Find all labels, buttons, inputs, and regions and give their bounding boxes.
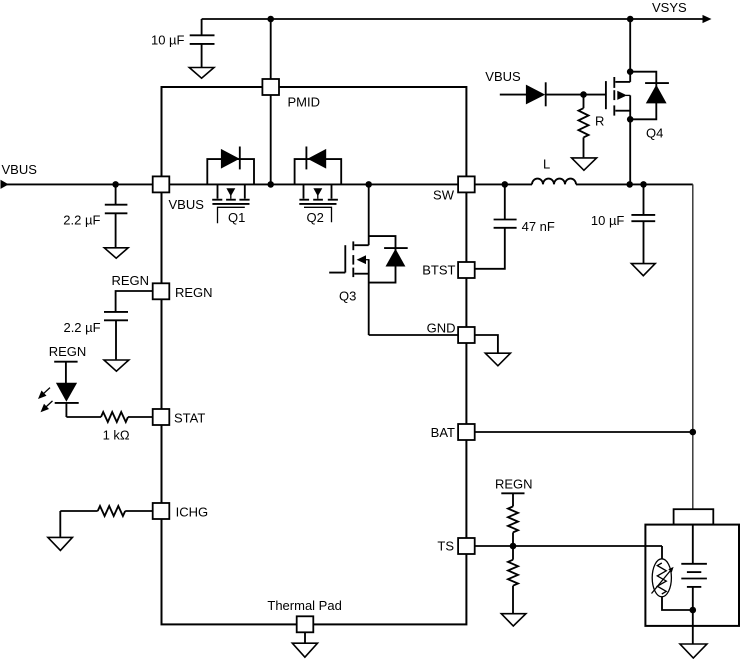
ground (GND pin) [485,353,510,366]
ground (TS divider) [501,614,526,626]
svg-text:VBUS: VBUS [485,69,521,84]
capacitor C 10uF (top left) [151,19,215,67]
wire top rail PMID to VSYS [202,18,705,20]
pin SW [458,176,475,192]
pin STAT [153,409,170,425]
svg-text:BTST: BTST [422,263,455,278]
ground (thermal pad) [292,643,317,657]
svg-text:BAT: BAT [431,425,455,440]
pin TS [458,538,475,554]
wire Q3 source to GND pin [369,334,459,336]
svg-text:REGN: REGN [175,285,213,300]
transistor Q3 [329,184,408,335]
svg-text:REGN: REGN [112,273,150,288]
svg-text:Q4: Q4 [646,126,663,141]
transistor Q4 [606,19,669,184]
svg-text:STAT: STAT [174,411,205,426]
ground (battery) [680,644,707,658]
wire thermal pad to ground [304,632,306,643]
battery cell [681,525,707,610]
node VBUS input arrow [1,180,9,189]
node junction BAT/battery [690,429,697,436]
node junction Q3 drain [365,181,372,188]
node junction PMID/rail [267,181,274,188]
ground (top left cap) [189,68,214,79]
ground (ICHG) [48,537,73,550]
svg-text:SW: SW [433,188,455,203]
svg-text:10 µF: 10 µF [591,213,625,228]
resistor 1 kOhm [66,412,152,443]
svg-text:2.2 µF: 2.2 µF [63,213,100,228]
wire REGN pin to cap [116,291,153,312]
svg-text:Q3: Q3 [339,289,356,304]
svg-text:Q1: Q1 [228,210,245,225]
wire SW to inductor [475,183,532,185]
capacitor C 2.2uF (VBUS) [63,181,127,247]
svg-text:R: R [595,114,604,129]
transistor Q1 [207,147,254,226]
diode D2 (VBUS) [526,82,606,106]
svg-text:47 nF: 47 nF [522,219,555,234]
resistor RT1 (REGN to TS) [508,506,518,532]
inductor L [532,157,576,185]
node junction battery negative [690,607,697,614]
transistor Q2 [295,147,342,226]
node junction 47nF tap [502,181,509,188]
node junction 10uF tap [640,181,647,188]
ground (2.2uF REGN) [104,360,129,371]
wire right vertical to battery [692,184,694,510]
svg-text:ICHG: ICHG [176,505,209,520]
node junction top rail at PMID [267,16,274,23]
svg-text:Thermal Pad: Thermal Pad [267,598,341,613]
pin GND [458,327,475,343]
pin Thermal Pad [297,616,314,632]
resistor RT2 (TS to ground) [508,546,518,613]
resistor ICHG [60,506,152,537]
svg-text:VBUS: VBUS [2,162,38,177]
svg-text:VSYS: VSYS [652,0,687,15]
capacitor 47 nF [475,184,555,268]
node junction Q4 source at SW rail [626,181,633,188]
thermistor [652,546,693,610]
node REGN rail (TS divider) [495,477,533,507]
pin BAT [458,424,475,440]
svg-text:GND: GND [427,321,456,336]
wire BAT rail [475,431,693,433]
wire VBUS to diode [500,94,527,96]
wire battery to ground [692,610,694,644]
pin VBUS [153,176,170,192]
wire GND pin to ground [475,335,498,353]
battery pack tab [674,509,714,524]
svg-text:L: L [543,157,550,172]
node junction TS divider [510,543,517,550]
wire RT1 to TS rail [512,532,514,546]
svg-text:2.2 µF: 2.2 µF [63,320,100,335]
pin BTST [458,262,475,278]
wire TS rail [475,545,662,547]
resistor R [579,95,605,158]
node junction R tap [580,91,587,98]
node REGN rail (LED) [49,344,87,383]
capacitor C 2.2uF (REGN) [63,312,128,360]
wire inductor to right corner [576,183,693,185]
ground (2.2uF VBUS) [104,248,128,258]
svg-text:REGN: REGN [495,477,533,492]
node VSYS arrow [703,15,712,23]
battery pack box [645,525,739,626]
wire PMID vertical [270,19,272,184]
ground (10uF right) [631,264,655,276]
wire VBUS input rail [6,183,458,185]
svg-text:PMID: PMID [288,95,321,110]
svg-text:VBUS: VBUS [169,197,205,212]
svg-text:Q2: Q2 [307,210,324,225]
svg-text:10 µF: 10 µF [151,32,185,47]
node junction top rail at Q4 [627,16,634,23]
pin PMID [262,79,279,95]
LED D1 [38,383,79,417]
ground (R) [572,158,597,170]
svg-text:TS: TS [437,539,454,554]
pin ICHG [153,503,170,519]
pin REGN [153,283,170,299]
svg-text:REGN: REGN [49,344,87,359]
capacitor C 10uF (right) [591,184,655,263]
IC box BQ charger [162,87,467,624]
svg-text:1 kΩ: 1 kΩ [103,428,130,443]
